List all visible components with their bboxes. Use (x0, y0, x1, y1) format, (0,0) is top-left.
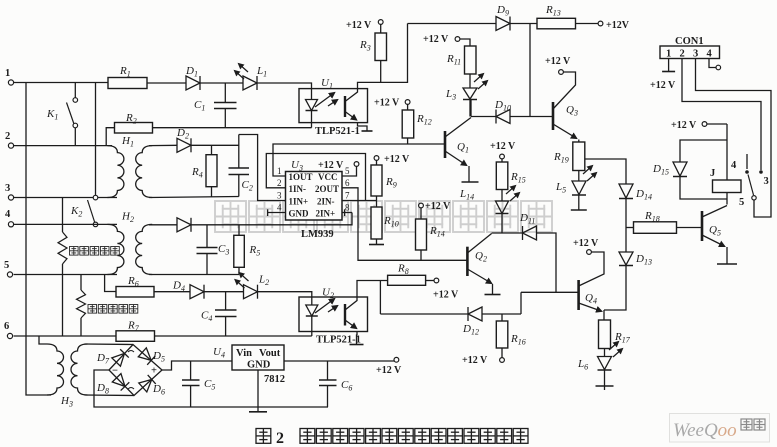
WeeQoo logo (670, 414, 770, 443)
wire row2 terminal2 to H1/D2 (14, 145, 112, 147)
diode D4 (190, 285, 204, 299)
svg-text:3: 3 (693, 49, 698, 60)
svg-text:4: 4 (731, 160, 737, 171)
wire D12 to R16 node (482, 313, 521, 315)
wire D4 to L2 (204, 291, 244, 293)
svg-text:3: 3 (277, 191, 282, 201)
wire R6 to D4 (154, 291, 190, 293)
wire return R2 to C1/U1 (channel1 return) (153, 127, 312, 129)
regulator U4 7812 (232, 345, 284, 370)
optocoupler U1 TLP521-1 (299, 89, 368, 123)
diode D10 (496, 110, 510, 124)
svg-text:LM939: LM939 (301, 229, 334, 240)
LED L6 (598, 357, 612, 370)
U1 emitter ground tick (358, 123, 368, 131)
resistor R5 (238, 225, 240, 236)
bridge rectifier diamond (109, 345, 162, 396)
svg-text:5: 5 (739, 197, 744, 208)
svg-text:+12 V: +12 V (545, 56, 571, 67)
svg-text:+12 V: +12 V (490, 141, 516, 152)
transistor Q2 (466, 247, 469, 276)
transistor Q4 (577, 280, 580, 310)
wire row5 terminal5 to H2 bottoms/R5 (14, 274, 117, 276)
wire U3 pin2 1IN- to divider (266, 154, 365, 201)
wire +12V rail to D9 (408, 23, 497, 25)
IC U3 LM939 (286, 172, 343, 221)
svg-text:+12V: +12V (606, 20, 630, 31)
wire H3 secondary to bridge (85, 343, 134, 346)
wire D9 to R13 (510, 23, 537, 25)
wire R8 node down to D12 (379, 281, 381, 315)
diode D11 series (523, 226, 537, 240)
resistor R13 (537, 18, 576, 29)
switch K2 (93, 195, 98, 200)
svg-text:WeeQoo: WeeQoo (673, 420, 737, 441)
wire R19 tap to D14 (585, 159, 626, 184)
resistor R16 (501, 314, 503, 321)
transformer H1 (107, 146, 124, 198)
svg-text:+12 V: +12 V (671, 120, 697, 131)
diode D2 (177, 138, 191, 152)
resistor R11 (465, 46, 477, 74)
wire U4 Vout to +12V (284, 360, 394, 362)
diode D9 (496, 17, 510, 31)
svg-text:1IN+: 1IN+ (289, 197, 309, 207)
LED L1 (243, 76, 257, 90)
resistor R17 (599, 320, 611, 349)
wire bridge plus to U4 Vin (162, 361, 232, 370)
wire U1 collector to R3/D9 rail riser (358, 24, 408, 89)
LED D11 indicator (501, 190, 503, 202)
svg-text:4: 4 (5, 209, 11, 220)
wire U3 pin8 2IN+ stub to row4 (342, 212, 352, 214)
relay coil J (726, 124, 728, 180)
wire D13 down to Q4 emitter node (604, 266, 626, 311)
transistor Q1 (444, 131, 447, 158)
resistor R4 (211, 145, 213, 154)
transistor Q3 (552, 102, 555, 130)
svg-text:3: 3 (5, 183, 10, 194)
svg-text:5: 5 (4, 260, 9, 271)
diode D14 (619, 184, 633, 198)
svg-text:+: + (151, 366, 157, 377)
transformer H3 (39, 336, 47, 344)
resistor R2 (106, 128, 114, 146)
wire U3 pin6 2OUT down to Q2 base (342, 188, 467, 260)
heater RT1 横封加热器 (62, 198, 64, 233)
resistor R1 (108, 78, 147, 89)
resistor R14 (419, 203, 424, 208)
svg-text:1OUT: 1OUT (289, 172, 313, 182)
svg-text:6: 6 (4, 321, 9, 332)
wire Q2 collector to D11 (492, 232, 523, 234)
wire bridge minus to gnd rail (94, 370, 328, 407)
optocoupler U2 TLP521-1 (299, 297, 368, 332)
resistor R18 (626, 227, 634, 229)
bridge diode D7 (112, 349, 129, 366)
svg-text:+12 V: +12 V (573, 238, 599, 249)
svg-text:GND: GND (289, 209, 310, 219)
capacitor C4 (225, 292, 227, 310)
transformer H2 (107, 224, 124, 274)
+12V terminal after R13 (576, 23, 599, 25)
capacitor C6 (327, 361, 329, 380)
wire vertical x26 row1 to H3 primary bottom (26, 83, 51, 396)
wire D2 to C2 node (191, 144, 239, 146)
connector CON1 (660, 46, 720, 59)
svg-text:CON1: CON1 (675, 36, 704, 47)
svg-text:+12 V: +12 V (384, 154, 410, 165)
svg-text:2IN+: 2IN+ (316, 209, 336, 219)
diode D1 (186, 76, 200, 90)
wire C2 jog to U3 pin3 (239, 135, 286, 201)
svg-text:1IN-: 1IN- (289, 184, 307, 194)
terminal 4 (8, 222, 13, 227)
wire D10 to Q3 base (510, 116, 553, 118)
svg-text:+12 V: +12 V (425, 201, 451, 212)
svg-text:J: J (710, 168, 715, 179)
capacitor C1 (224, 83, 226, 103)
svg-text:Vout: Vout (259, 348, 281, 359)
svg-text:2: 2 (680, 49, 685, 60)
wire L2 to U2 input (258, 292, 312, 303)
svg-text:7: 7 (345, 191, 350, 201)
LED L2 (244, 285, 258, 299)
switch K1 (74, 83, 76, 98)
svg-text:3: 3 (764, 176, 769, 187)
resistor R19 (578, 140, 580, 143)
CON1 pin1 ground (668, 59, 670, 72)
bridge diode D6 (139, 375, 156, 392)
capacitor C3 (206, 225, 208, 248)
wire row6 terminal6 to R7 (14, 335, 116, 337)
terminal 3 (8, 195, 13, 200)
bridge diode D5 (138, 348, 155, 365)
svg-text:8: 8 (345, 203, 350, 213)
svg-text:+12 V: +12 V (376, 365, 402, 376)
svg-text:6: 6 (345, 178, 350, 188)
wire R1 to D1 (147, 82, 186, 84)
wire Q1 collector to D10 (471, 116, 496, 118)
wire U3 pin4 GND stub (268, 212, 286, 214)
wire L1 to U1 input (257, 83, 312, 94)
resistor R10 (376, 196, 378, 207)
svg-text:−: − (112, 366, 118, 377)
svg-text:+12 V: +12 V (374, 98, 400, 109)
diode D3 (177, 218, 191, 232)
wire D14 to R18 junction and D13 (625, 199, 627, 253)
svg-text:+12 V: +12 V (346, 20, 372, 31)
bridge diode D8 (112, 374, 129, 391)
caption 图2 电加热器断路故障测控装置原理图 (256, 429, 528, 447)
wire R7 to U2 return / C4 (155, 335, 312, 337)
heater RT2 纵封加热器 (80, 275, 82, 291)
capacitor C5 (190, 361, 192, 380)
resistor R8 (388, 275, 426, 285)
diode D15 flyback (680, 140, 727, 162)
wire U3 pin7 2IN- to divider junction (342, 200, 377, 202)
transistor Q5 (701, 211, 704, 241)
svg-text:2IN-: 2IN- (317, 197, 335, 207)
svg-text:2OUT: 2OUT (315, 184, 339, 194)
Q2 emitter ground (492, 284, 494, 294)
CON1 pin3 wire to relay contact 5 (696, 59, 772, 218)
svg-text:7812: 7812 (264, 374, 285, 385)
Q5 emitter ground (726, 247, 728, 264)
wire row3 terminal3 to H1 bottoms and C2 return (14, 197, 117, 199)
wire Q4 emitter node (603, 310, 605, 320)
wire Q4 base line / down to D12 node (521, 291, 579, 293)
svg-text:1: 1 (666, 49, 671, 60)
wire vertical x95 row1 to K2 (95, 83, 97, 196)
wire D1 to L1 (200, 82, 243, 84)
svg-text:4: 4 (277, 203, 282, 213)
wire D3 to R5 and pin8 drop (191, 213, 352, 225)
watermark 杭州将睿科技有限公司 (215, 201, 552, 232)
svg-text:1: 1 (5, 68, 10, 79)
svg-text:2: 2 (5, 131, 10, 142)
svg-text:+12 V: +12 V (650, 80, 676, 91)
svg-text:+12 V: +12 V (318, 160, 344, 171)
CON1 pin2 wire to relay contact 3 (682, 59, 761, 171)
svg-text:1: 1 (277, 166, 282, 176)
terminal 6 (7, 333, 12, 338)
wire H1 secondary top to D2 (149, 144, 177, 146)
svg-text:4: 4 (707, 49, 713, 60)
wire row4 terminal4 to H2/D3 and U3 pin8 (14, 223, 117, 225)
wire Q1 collector node (470, 100, 472, 117)
capacitor C2 (238, 135, 240, 169)
wire U3 pin1 1OUT loop to Q1 base (273, 144, 445, 176)
diode D12 (380, 313, 468, 315)
svg-text:GND: GND (247, 360, 271, 371)
svg-text:+12 V: +12 V (423, 34, 449, 45)
svg-text:+12 V: +12 V (462, 355, 488, 366)
diode D13 (619, 252, 633, 265)
svg-text:2: 2 (277, 178, 282, 188)
U4 ground (257, 370, 259, 412)
wire U2 collector to R8 (357, 281, 388, 298)
svg-text:Vin: Vin (236, 348, 252, 359)
svg-text:TLP521-1: TLP521-1 (315, 126, 360, 137)
CON1 pin4 terminal (709, 59, 716, 68)
U2 emitter ground tick (356, 332, 359, 345)
wire U3 pin5 VCC to +12V (342, 166, 357, 176)
relay contact pins 4/3/5 (746, 154, 748, 169)
terminal 1 (8, 80, 13, 85)
resistor R7 (116, 331, 155, 342)
wire row1 terminal1 to R1 (14, 82, 108, 84)
terminal 5 (7, 272, 12, 277)
resistor R9 (374, 156, 379, 161)
svg-text:VCC: VCC (318, 172, 338, 182)
svg-text:2: 2 (276, 430, 284, 447)
svg-text:5: 5 (345, 166, 350, 176)
wire D11 to Q4 base line (537, 233, 557, 292)
terminal 2 (8, 143, 13, 148)
resistor R6 (105, 275, 116, 292)
LED L5 (578, 171, 580, 182)
svg-text:+12 V: +12 V (433, 290, 459, 301)
Q1 emitter ground L14 (468, 166, 470, 182)
wire D9 node down to D10 (529, 24, 531, 117)
